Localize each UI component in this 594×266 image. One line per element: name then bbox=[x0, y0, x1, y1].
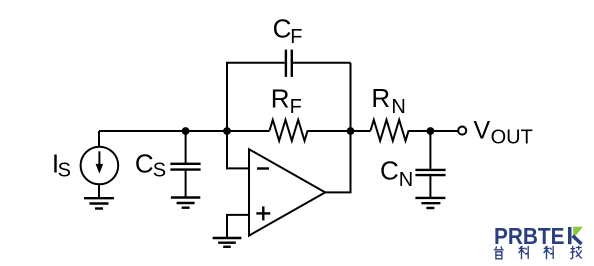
node junction output of op-amp bbox=[347, 127, 355, 135]
logo chinese characters 普科科技 bbox=[494, 246, 582, 260]
svg-text:C: C bbox=[380, 156, 399, 186]
svg-text:PRBTE: PRBTE bbox=[494, 223, 565, 249]
resistor RN bbox=[371, 120, 409, 141]
wire IS top vertical bbox=[98, 131, 100, 148]
wire RN right lead bbox=[409, 130, 431, 132]
svg-text:F: F bbox=[290, 96, 302, 118]
node junction inverting input bbox=[223, 127, 231, 135]
svg-text:S: S bbox=[58, 159, 71, 181]
svg-text:OUT: OUT bbox=[491, 127, 533, 149]
wire feedback right vertical bbox=[350, 63, 352, 131]
wire RN left lead bbox=[351, 130, 371, 132]
ground (CN) bbox=[415, 198, 445, 208]
svg-text:C: C bbox=[273, 14, 292, 44]
wire CS to ground bbox=[185, 171, 187, 197]
label VOUT bbox=[474, 116, 533, 148]
current source IS bbox=[81, 147, 119, 185]
svg-text:N: N bbox=[399, 169, 413, 191]
label RN bbox=[371, 83, 405, 118]
svg-text:C: C bbox=[135, 149, 154, 179]
wire RF to output node bbox=[308, 130, 351, 132]
wire feedback top rail left bbox=[226, 62, 285, 64]
svg-text:N: N bbox=[391, 96, 405, 118]
capacitor CF bbox=[286, 50, 292, 77]
resistor RF bbox=[270, 120, 308, 141]
wire CN top bbox=[429, 131, 431, 169]
capacitor CN bbox=[415, 170, 445, 175]
label RF bbox=[271, 84, 302, 118]
wire IS to ground bbox=[98, 184, 100, 198]
label IS bbox=[52, 149, 71, 182]
svg-text:V: V bbox=[474, 116, 491, 144]
svg-text:R: R bbox=[271, 84, 290, 114]
wire feedback left vertical bbox=[226, 63, 228, 131]
wire non-inverting input bbox=[227, 215, 249, 238]
node junction CS bbox=[182, 127, 190, 135]
wire CS top bbox=[185, 131, 187, 163]
wire to output terminal bbox=[430, 130, 457, 132]
node junction CN bbox=[427, 127, 435, 135]
label CS bbox=[135, 149, 166, 182]
capacitor CS bbox=[170, 164, 200, 170]
wire inverting input bbox=[227, 131, 249, 168]
svg-text:S: S bbox=[153, 159, 166, 181]
wire op-amp output bbox=[325, 131, 350, 192]
output terminal VOUT bbox=[458, 127, 466, 135]
wire feedback top rail right bbox=[293, 62, 351, 64]
logo PRBTEK wordmark bbox=[494, 223, 583, 249]
ground (CS) bbox=[171, 198, 200, 208]
ground (IS) bbox=[84, 198, 114, 208]
wire CN to ground bbox=[429, 176, 431, 197]
label CF bbox=[273, 14, 303, 48]
wire input net horizontal bbox=[99, 130, 270, 132]
op-amp U1 bbox=[249, 149, 325, 235]
svg-text:R: R bbox=[371, 83, 390, 113]
label CN bbox=[380, 156, 413, 191]
ground (op-amp non-inverting input) bbox=[213, 238, 242, 247]
svg-text:F: F bbox=[290, 26, 302, 48]
